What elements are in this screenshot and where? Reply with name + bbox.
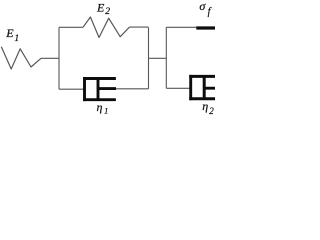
svg-text:f: f [208, 7, 212, 18]
svg-text:η: η [97, 100, 103, 114]
friction element sigma_f bar [196, 26, 215, 29]
svg-text:1: 1 [14, 34, 19, 44]
wire spring E1 to node [41, 57, 59, 59]
wire middle rail box1 to box2 [149, 57, 167, 59]
dashpot eta1 cylinder top bar [83, 77, 116, 80]
svg-text:2: 2 [209, 106, 214, 116]
label E1 [5, 26, 19, 44]
label eta2 [202, 99, 214, 116]
wire box1 bottom left [59, 88, 83, 90]
svg-text:1: 1 [104, 106, 108, 115]
label E2 [96, 0, 110, 17]
dashpot eta2 cylinder bottom bar [189, 97, 215, 100]
dashpot eta2 cylinder left wall [189, 75, 192, 100]
label sigma_f [199, 0, 211, 18]
wire box1 right vertical [148, 27, 150, 89]
svg-text:E: E [96, 0, 105, 14]
spring E2 [83, 17, 130, 38]
dashpot eta1 piston plate [97, 80, 100, 99]
wire box1 left vertical [58, 27, 60, 89]
svg-text:2: 2 [105, 7, 110, 17]
dashpot eta1 cylinder left wall [83, 77, 86, 101]
dashpot eta2 piston plate [203, 78, 206, 98]
dashpot eta2 piston rod [204, 87, 215, 90]
svg-text:η: η [202, 99, 208, 113]
wire box1 top rail right [130, 26, 149, 28]
label eta1 [97, 100, 109, 115]
wire box2 left vertical [165, 27, 167, 88]
dashpot eta1 piston rod [98, 87, 116, 90]
dashpot eta2 cylinder top bar [189, 75, 215, 78]
wire box2 bottom branch [166, 87, 190, 89]
wire dashpot eta1 to box1 right [116, 88, 149, 90]
wire box2 top branch [166, 26, 196, 28]
svg-text:E: E [5, 26, 14, 40]
spring E1 [1, 47, 41, 69]
dashpot eta1 cylinder bottom bar [83, 98, 116, 101]
wire box1 top rail left [59, 26, 83, 28]
svg-text:σ: σ [199, 0, 206, 13]
